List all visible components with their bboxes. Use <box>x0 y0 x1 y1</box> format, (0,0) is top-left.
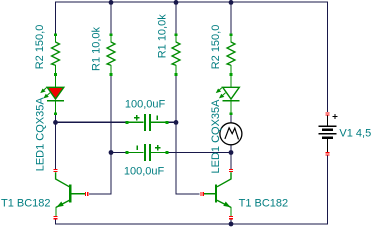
svg-text:R1 10,0k: R1 10,0k <box>157 14 169 59</box>
svg-text:V1 4,5: V1 4,5 <box>339 127 371 139</box>
svg-text:R2 150,0: R2 150,0 <box>210 25 222 70</box>
svg-text:T1 BC182: T1 BC182 <box>239 198 289 210</box>
svg-text:R2 150,0: R2 150,0 <box>34 25 46 70</box>
svg-text:100,0uF: 100,0uF <box>125 99 166 111</box>
svg-text:T1 BC182: T1 BC182 <box>1 198 51 210</box>
svg-text:100,0uF: 100,0uF <box>124 165 165 177</box>
svg-text:LED1 CQX35A: LED1 CQX35A <box>210 99 222 174</box>
svg-text:LED1 CQX35A: LED1 CQX35A <box>35 97 47 172</box>
svg-text:R1 10,0k: R1 10,0k <box>91 26 103 71</box>
